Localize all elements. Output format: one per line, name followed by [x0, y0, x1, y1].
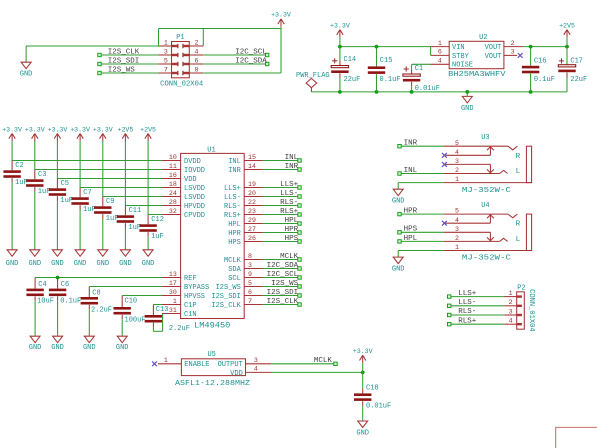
capacitor C7 1uF	[71, 188, 95, 250]
wire U1 INL	[263, 160, 300, 162]
svg-text:HPR: HPR	[404, 208, 418, 216]
svg-text:6: 6	[248, 289, 252, 296]
svg-text:U1: U1	[207, 146, 215, 154]
dangling end I2S_SDI	[98, 62, 101, 65]
svg-text:22uF: 22uF	[344, 76, 361, 84]
svg-text:R: R	[516, 221, 521, 229]
svg-text:29: 29	[248, 217, 256, 224]
no-connect U5 pin1	[152, 361, 157, 366]
svg-text:PWR_FLAG: PWR_FLAG	[296, 72, 330, 80]
svg-text:17: 17	[169, 280, 177, 287]
svg-text:MJ-352W-C: MJ-352W-C	[462, 255, 512, 263]
ground rail 1	[6, 250, 19, 268]
dangling end MCLK	[334, 362, 337, 365]
wire U1 LLS+	[263, 187, 300, 189]
dangling end HPR	[398, 212, 401, 215]
svg-text:LM49450: LM49450	[194, 321, 230, 330]
svg-text:2: 2	[511, 40, 515, 47]
wire REF net	[35, 277, 162, 279]
svg-text:I2S_CLK: I2S_CLK	[267, 298, 299, 306]
svg-text:GND: GND	[392, 266, 405, 274]
svg-text:RLS+: RLS+	[224, 212, 241, 220]
dangling end INL	[298, 159, 301, 162]
dangling end HPS	[398, 231, 401, 234]
svg-text:C7: C7	[83, 189, 91, 197]
svg-text:1: 1	[455, 244, 459, 251]
capacitor C17 22uF	[558, 47, 587, 92]
wire U1 I2S_SDI	[263, 295, 300, 297]
junction at C16 top	[529, 45, 533, 49]
svg-text:HPS: HPS	[285, 235, 299, 243]
svg-text:18: 18	[169, 181, 177, 188]
svg-text:13: 13	[169, 271, 177, 278]
svg-text:RLS+: RLS+	[458, 317, 477, 325]
svg-text:GND: GND	[28, 260, 41, 268]
svg-text:P2: P2	[517, 284, 525, 292]
no-connect U3 pin 4	[442, 153, 447, 158]
ground rail 3	[51, 250, 64, 268]
svg-text:2: 2	[509, 299, 513, 306]
ground under C18	[356, 421, 369, 438]
dangling end INR	[398, 145, 401, 148]
svg-text:U3: U3	[481, 134, 489, 142]
svg-text:1: 1	[164, 39, 168, 46]
svg-text:GND: GND	[142, 260, 155, 268]
svg-text:19: 19	[248, 181, 256, 188]
wire P2 RLS-	[449, 314, 504, 316]
svg-text:C1P: C1P	[184, 302, 197, 310]
svg-text:1uF: 1uF	[38, 188, 51, 196]
svg-text:28: 28	[169, 199, 177, 206]
ground rail 7	[142, 250, 155, 268]
svg-text:1: 1	[509, 290, 513, 297]
wire P2 LLS-	[449, 305, 504, 307]
wire rail 7	[148, 141, 162, 215]
dangling end I2C_SDA	[298, 267, 301, 270]
wire U1 I2C_SCL	[263, 277, 300, 279]
svg-text:4: 4	[438, 58, 442, 65]
svg-text:1uF: 1uF	[151, 233, 164, 241]
svg-text:3: 3	[455, 226, 459, 233]
svg-text:1: 1	[438, 40, 442, 47]
svg-text:C1: C1	[415, 65, 423, 73]
svg-text:GND: GND	[83, 344, 96, 352]
svg-text:MCLK: MCLK	[280, 253, 299, 261]
svg-text:LLS+: LLS+	[458, 290, 477, 298]
svg-text:HPVDD: HPVDD	[184, 203, 205, 211]
dangling end LLS+	[448, 295, 451, 298]
wire U5 VDD to +3.3V	[271, 371, 362, 373]
svg-text:LLS+: LLS+	[280, 181, 299, 189]
dangling end HPR	[298, 231, 301, 234]
svg-text:+3.3V: +3.3V	[2, 126, 22, 133]
wire +3.3V rail to U2	[340, 47, 431, 56]
power flag PWR_FLAG	[296, 72, 330, 92]
svg-text:I2S_SDI: I2S_SDI	[108, 57, 140, 65]
capacitor C3 1uF	[26, 170, 50, 250]
svg-text:10uF: 10uF	[37, 298, 54, 306]
svg-text:MJ-352W-C: MJ-352W-C	[462, 187, 512, 195]
svg-text:RLS+: RLS+	[280, 208, 299, 216]
svg-text:GND: GND	[461, 105, 474, 113]
svg-text:C3: C3	[38, 171, 46, 179]
svg-text:4: 4	[195, 48, 199, 55]
IC U1 LM49450	[162, 146, 263, 330]
capacitor C12 1uF	[139, 215, 164, 250]
svg-text:1uF: 1uF	[15, 179, 28, 187]
svg-text:3: 3	[511, 49, 515, 56]
svg-text:23: 23	[248, 208, 256, 215]
wire U1 INR	[263, 169, 300, 171]
wire U1 HPR	[263, 232, 300, 234]
svg-text:I2S_CLK: I2S_CLK	[211, 302, 241, 310]
capacitor C5 1uF	[49, 179, 73, 250]
svg-text:24: 24	[169, 190, 177, 197]
svg-text:1uF: 1uF	[83, 206, 96, 214]
jack U3 MJ-352W-C	[444, 134, 532, 195]
dangling end INR	[298, 168, 301, 171]
svg-text:11: 11	[169, 163, 177, 170]
ground top-left	[20, 62, 33, 78]
svg-text:GND: GND	[119, 260, 132, 268]
svg-text:+3.3V: +3.3V	[93, 126, 113, 133]
svg-text:HPR: HPR	[285, 226, 299, 234]
junction C14 bottom	[338, 90, 342, 94]
svg-text:5: 5	[455, 208, 459, 215]
svg-text:+3.3V: +3.3V	[330, 22, 350, 29]
svg-text:30: 30	[169, 289, 177, 296]
no-connect U2 pin3	[518, 53, 523, 58]
capacitor C9 1uF	[94, 197, 118, 250]
dangling end LLS-	[448, 304, 451, 307]
oscillator U5 ASFL1-12.288MHZ	[158, 351, 272, 388]
svg-text:+3.3V: +3.3V	[25, 126, 45, 133]
svg-text:1uF: 1uF	[60, 197, 73, 205]
ground rail 5	[96, 250, 109, 268]
svg-text:C11: C11	[129, 207, 142, 215]
svg-text:HPL: HPL	[404, 235, 418, 243]
ground under C8	[83, 336, 96, 352]
junction C15 bottom	[375, 90, 379, 94]
svg-text:7: 7	[248, 298, 252, 305]
wire U1 I2C_SDA	[263, 268, 300, 270]
capacitor C1 0.01uF	[403, 65, 440, 93]
wire MCLK from U5	[271, 363, 335, 365]
svg-text:1: 1	[455, 176, 459, 183]
svg-text:INR: INR	[404, 140, 418, 148]
svg-text:SCL: SCL	[228, 275, 241, 283]
wire +3.3V bridge over P1	[159, 29, 282, 74]
svg-text:3: 3	[164, 48, 168, 55]
dangling end I2C_SCL	[266, 53, 269, 56]
junction GND stem	[465, 90, 469, 94]
svg-text:RLS-: RLS-	[280, 199, 298, 207]
ground rail 2	[28, 250, 41, 268]
svg-text:I2S_SDI: I2S_SDI	[267, 289, 299, 297]
svg-text:I2C_SCL: I2C_SCL	[267, 271, 299, 279]
svg-text:VOUT: VOUT	[485, 53, 502, 61]
svg-text:1: 1	[173, 298, 177, 305]
power +3.3V rail 3	[48, 126, 68, 141]
dangling end RLS-	[448, 313, 451, 316]
svg-text:32: 32	[169, 208, 177, 215]
svg-text:2: 2	[455, 235, 459, 242]
wire U1 LLS-	[263, 196, 300, 198]
svg-text:+2V5: +2V5	[140, 126, 156, 133]
svg-text:9: 9	[248, 271, 252, 278]
capacitor C15 0.1uF	[368, 47, 401, 92]
svg-text:+2V5: +2V5	[117, 126, 133, 133]
svg-text:+3.3V: +3.3V	[70, 126, 90, 133]
wire label I2C_SDA	[203, 63, 267, 65]
svg-text:4: 4	[455, 217, 459, 224]
svg-text:LLS-: LLS-	[458, 299, 476, 307]
wire BYPASS net	[89, 286, 162, 288]
svg-text:0.1uF: 0.1uF	[60, 298, 81, 306]
svg-text:31: 31	[169, 307, 177, 314]
svg-text:C9: C9	[106, 198, 114, 206]
svg-text:100uF: 100uF	[125, 317, 146, 325]
capacitor C11 1uF	[117, 206, 142, 250]
IC U2 BH25MA3WHFV	[431, 34, 523, 79]
wire U1 HPS	[263, 241, 300, 243]
svg-text:GND: GND	[51, 344, 64, 352]
svg-text:OUTPUT: OUTPUT	[218, 361, 243, 369]
dangling end MCLK	[298, 258, 301, 261]
wire C1P to C13	[153, 304, 162, 306]
svg-text:6: 6	[438, 49, 442, 56]
power +2V5	[559, 22, 575, 46]
svg-text:5: 5	[455, 140, 459, 147]
svg-text:C17: C17	[570, 58, 583, 66]
svg-text:10: 10	[169, 154, 177, 161]
junction C6 top	[56, 276, 60, 280]
svg-text:LSVDD: LSVDD	[184, 194, 205, 202]
svg-text:U2: U2	[479, 34, 487, 42]
svg-text:REF: REF	[184, 275, 197, 283]
svg-text:INR: INR	[228, 167, 241, 175]
wire P2 RLS+	[449, 323, 504, 325]
svg-text:16: 16	[169, 172, 177, 179]
wire label I2S_SDI	[100, 63, 159, 65]
svg-text:I2C_SDA: I2C_SDA	[267, 262, 299, 270]
svg-text:I2S_WS: I2S_WS	[271, 280, 299, 288]
wire U1 I2S_WS	[263, 286, 300, 288]
svg-text:C16: C16	[534, 58, 547, 66]
ground rail 6	[119, 250, 132, 268]
ground under U2	[466, 92, 468, 97]
svg-text:+3.3V: +3.3V	[48, 126, 68, 133]
dangling end I2S_CLK	[298, 303, 301, 306]
svg-text:2: 2	[195, 39, 199, 46]
svg-text:P1: P1	[176, 34, 184, 42]
ground under C4	[29, 336, 42, 352]
no-connect U4 pin 4	[442, 221, 447, 226]
dangling end RLS-	[298, 204, 301, 207]
wire P2 LLS+	[449, 296, 504, 298]
svg-text:3: 3	[509, 308, 513, 315]
svg-text:C1N: C1N	[184, 311, 197, 319]
svg-text:GND: GND	[96, 260, 109, 268]
svg-text:C13: C13	[156, 306, 169, 314]
svg-text:GND: GND	[116, 344, 129, 352]
capacitor C14 22uF	[331, 47, 360, 92]
dangling end INL	[398, 172, 401, 175]
svg-text:22: 22	[248, 199, 256, 206]
svg-text:1uF: 1uF	[106, 215, 119, 223]
wire rail 2	[35, 141, 162, 170]
svg-text:R: R	[516, 153, 521, 161]
svg-text:0.1uF: 0.1uF	[534, 76, 555, 84]
svg-text:C15: C15	[380, 57, 393, 65]
svg-text:2: 2	[455, 167, 459, 174]
wire rail 3	[57, 141, 161, 179]
junction C1 bottom	[410, 90, 414, 94]
svg-text:INR: INR	[285, 163, 299, 171]
power +3.3V rail 4	[70, 126, 90, 141]
wire U4 HPR	[400, 213, 444, 215]
capacitor C10 100uF	[114, 296, 146, 337]
svg-text:GND: GND	[74, 260, 87, 268]
wire HPVSS net	[122, 295, 162, 297]
capacitor C13 2.2uF	[145, 305, 190, 334]
capacitor C18 0.01uF	[354, 372, 391, 421]
svg-text:3: 3	[455, 158, 459, 165]
svg-text:+3.3V: +3.3V	[353, 348, 373, 355]
dangling end HPL	[298, 222, 301, 225]
wire rail 5	[103, 141, 162, 197]
svg-text:8: 8	[248, 253, 252, 260]
svg-text:DVDD: DVDD	[184, 158, 201, 166]
ground under U4	[392, 257, 405, 273]
wire U3 pin1 to GND	[398, 183, 443, 190]
power +3.3V rail 1	[2, 126, 22, 141]
wire C13 to C1N	[153, 314, 162, 332]
svg-text:C10: C10	[125, 298, 138, 306]
dangling end I2C_SDA	[266, 62, 269, 65]
capacitor C2 1uF	[3, 161, 27, 250]
wire rail 4	[80, 141, 162, 188]
svg-text:2.2uF: 2.2uF	[169, 325, 190, 333]
svg-text:HPS: HPS	[228, 239, 241, 247]
svg-text:C18: C18	[366, 384, 379, 392]
svg-text:CONN_02X04: CONN_02X04	[160, 81, 203, 89]
svg-text:MCLK: MCLK	[224, 257, 242, 265]
wire U2 VOUT to +2V5	[522, 46, 567, 48]
wire rail 6	[125, 141, 161, 206]
power +3.3V at U5	[353, 348, 373, 372]
wire rail 1	[12, 141, 162, 161]
svg-text:VDD: VDD	[184, 176, 197, 184]
svg-text:GND: GND	[6, 260, 19, 268]
svg-text:5: 5	[164, 57, 168, 64]
svg-text:IOVDD: IOVDD	[184, 167, 205, 175]
svg-text:RLS-: RLS-	[458, 308, 476, 316]
dangling end I2S_WS	[98, 71, 101, 74]
svg-text:LSVDD: LSVDD	[184, 185, 205, 193]
svg-text:LLS-: LLS-	[280, 190, 298, 198]
wire U1 HPL	[263, 223, 300, 225]
svg-text:I2S_WS: I2S_WS	[108, 66, 136, 74]
svg-text:27: 27	[248, 226, 256, 233]
svg-text:VIN: VIN	[452, 44, 465, 52]
wire label I2S_WS	[100, 72, 159, 74]
svg-text:C6: C6	[61, 281, 69, 289]
junction U5 VDD	[361, 371, 365, 375]
dangling end LLS-	[298, 195, 301, 198]
svg-text:C5: C5	[61, 180, 69, 188]
svg-text:L: L	[516, 168, 521, 176]
svg-text:HPS: HPS	[404, 226, 418, 234]
svg-text:BH25MA3WHFV: BH25MA3WHFV	[448, 71, 506, 79]
svg-text:7: 7	[164, 66, 168, 73]
capacitor C4 10uF	[26, 278, 54, 337]
svg-text:STBY: STBY	[452, 53, 470, 61]
power +2V5 rail 6	[117, 126, 133, 141]
svg-text:+3.3V: +3.3V	[271, 12, 291, 19]
wire U4 HPS	[400, 231, 444, 233]
svg-text:26: 26	[248, 235, 256, 242]
svg-text:C8: C8	[92, 289, 100, 297]
svg-text:20: 20	[248, 190, 256, 197]
wire ground bus under U2	[311, 91, 567, 93]
wire label I2S_CLK	[100, 54, 159, 56]
svg-text:RLS-: RLS-	[224, 203, 241, 211]
wire U4 pin1 to GND	[398, 251, 443, 258]
ground under U3	[392, 189, 405, 205]
dangling end I2C_SCL	[298, 276, 301, 279]
connector P1 CONN_02X04	[158, 34, 203, 89]
svg-text:GND: GND	[29, 344, 42, 352]
svg-text:C12: C12	[151, 216, 164, 224]
svg-text:3: 3	[254, 357, 258, 364]
svg-text:GND: GND	[51, 260, 64, 268]
svg-text:INL: INL	[228, 158, 241, 166]
dangling end RLS+	[298, 213, 301, 216]
svg-text:+2V5: +2V5	[559, 22, 575, 29]
svg-text:HPL: HPL	[285, 217, 299, 225]
svg-text:HPR: HPR	[228, 230, 241, 238]
ground under C10	[116, 336, 129, 352]
svg-text:5: 5	[248, 280, 252, 287]
power +2V5 rail 7	[140, 126, 156, 141]
wire C1 to U2 NOISE	[412, 64, 431, 69]
dangling end RLS+	[448, 323, 451, 326]
svg-text:LLS-: LLS-	[224, 194, 241, 202]
wire label I2C_SCL	[203, 54, 267, 56]
svg-text:ENABLE: ENABLE	[184, 361, 209, 369]
svg-text:0.01uF: 0.01uF	[366, 402, 391, 410]
svg-text:ASFL1-12.288MHZ: ASFL1-12.288MHZ	[175, 380, 250, 388]
junction at C14 top	[338, 45, 342, 49]
dangling end HPS	[298, 240, 301, 243]
svg-text:1: 1	[164, 357, 168, 364]
svg-text:U5: U5	[207, 351, 215, 359]
svg-text:GND: GND	[20, 71, 33, 79]
svg-text:1uF: 1uF	[128, 224, 141, 232]
junction C16 bottom	[529, 90, 533, 94]
svg-text:22uF: 22uF	[570, 76, 587, 84]
capacitor C16 0.1uF	[522, 47, 555, 92]
svg-text:INL: INL	[285, 154, 299, 162]
dangling end I2S_SDI	[298, 294, 301, 297]
junction at C17 top	[565, 45, 569, 49]
svg-text:HPVSS: HPVSS	[184, 293, 205, 301]
wire U4 HPL	[400, 240, 444, 242]
ground under C6	[51, 336, 64, 352]
svg-text:C4: C4	[38, 281, 46, 289]
svg-text:MCLK: MCLK	[314, 357, 333, 365]
